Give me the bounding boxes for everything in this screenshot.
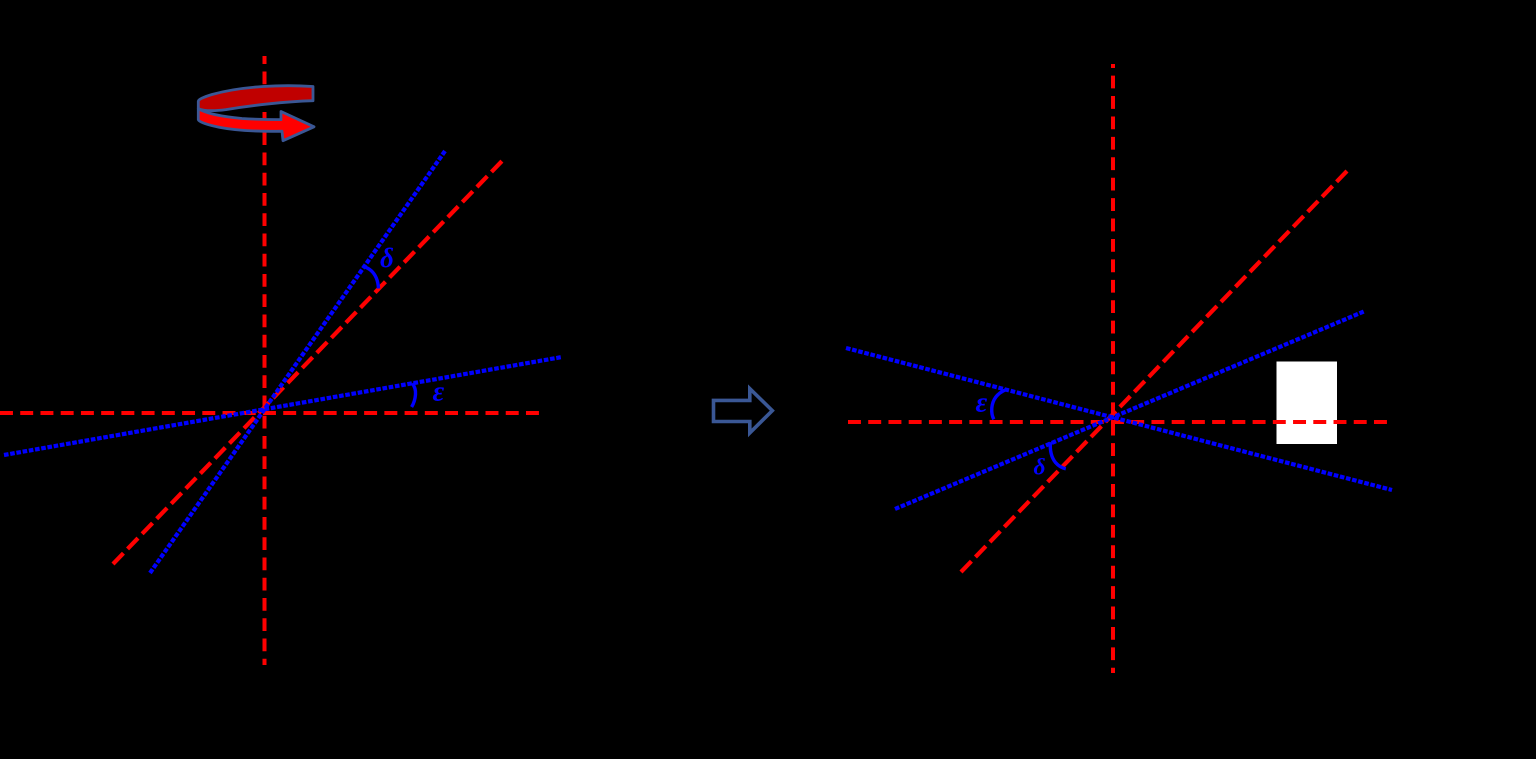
left shallow blue dotted line (4, 357, 562, 455)
left epsilon angle arc (412, 383, 416, 407)
svg-text:δ: δ (380, 243, 394, 273)
white rectangle (1277, 362, 1338, 445)
right red dashed diagonal (rotated axis) (961, 171, 1347, 572)
left red dashed diagonal (rotated axis) (113, 161, 502, 564)
left vertical dashed red axis (263, 56, 267, 665)
right epsilon angle arc (992, 390, 1006, 420)
right delta angle arc (1050, 442, 1066, 469)
right vertical dashed red axis (1111, 64, 1115, 673)
svg-text:δ: δ (1034, 455, 1046, 481)
svg-text:ε: ε (433, 377, 445, 408)
left delta angle arc (364, 267, 379, 289)
rotation ribbon arrow: dark top band (198, 86, 313, 111)
left horizontal dashed red axis (0, 411, 539, 415)
svg-text:ε: ε (976, 388, 988, 419)
right descending blue dotted line (846, 348, 1392, 490)
right horizontal dashed red axis (848, 420, 1387, 424)
rotation ribbon arrow: bright lower band with arrowhead (198, 109, 314, 141)
right ascending blue dotted line (895, 311, 1365, 509)
left steep blue dotted line (150, 151, 445, 573)
hollow right block arrow (714, 389, 773, 433)
